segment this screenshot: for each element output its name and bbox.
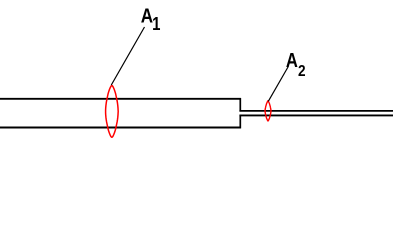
label A1 subscript 1 — [152, 13, 160, 34]
leader line to A2 — [268, 67, 288, 102]
wire: thick conductor right step upper segment — [239, 98, 241, 111]
svg-text:A: A — [286, 49, 298, 72]
wire: thick conductor top edge — [0, 98, 241, 100]
label A2 subscript 2 — [298, 63, 306, 80]
wire: thick conductor bottom edge — [0, 127, 241, 129]
svg-text:2: 2 — [298, 63, 306, 80]
wire: thick conductor right step lower segment — [239, 115, 241, 128]
cross-section ellipse A2 — [265, 101, 271, 121]
wire: thin wire top edge — [239, 110, 393, 112]
svg-text:1: 1 — [152, 13, 160, 34]
leader line to A1 — [111, 27, 144, 85]
label A2 letter A — [286, 49, 298, 72]
cross-section ellipse A1 — [106, 86, 119, 138]
wire: thin wire bottom edge — [239, 114, 393, 116]
label A1 letter A — [141, 4, 154, 27]
